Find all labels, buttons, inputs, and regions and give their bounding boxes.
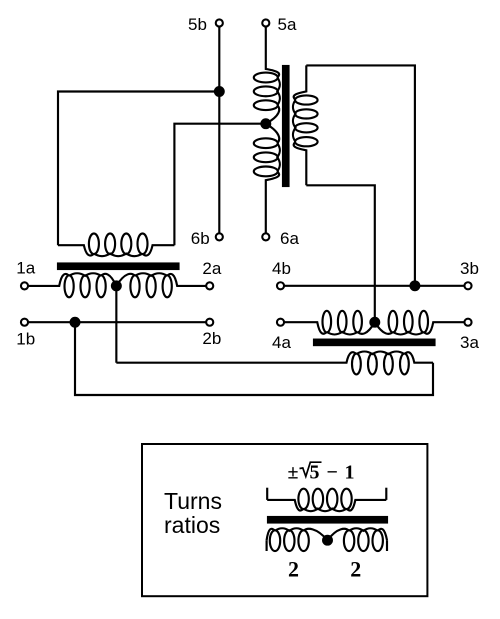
svg-text:3b: 3b: [460, 259, 479, 278]
svg-text:±: ±: [288, 461, 299, 483]
svg-text:5a: 5a: [278, 15, 297, 34]
svg-text:2b: 2b: [202, 329, 221, 348]
svg-text:5b: 5b: [188, 15, 207, 34]
svg-text:ratios: ratios: [164, 512, 220, 538]
svg-text:2a: 2a: [202, 259, 221, 278]
svg-text:6b: 6b: [191, 229, 210, 248]
svg-text:2: 2: [350, 557, 361, 582]
svg-text:4b: 4b: [272, 259, 291, 278]
svg-text:2: 2: [288, 557, 299, 582]
svg-text:−: −: [327, 461, 338, 483]
svg-text:1b: 1b: [16, 330, 35, 349]
svg-text:1a: 1a: [16, 259, 35, 278]
svg-text:6a: 6a: [280, 229, 299, 248]
svg-text:Turns: Turns: [164, 488, 222, 514]
svg-text:3a: 3a: [460, 333, 479, 352]
svg-text:1: 1: [345, 461, 355, 483]
svg-text:4a: 4a: [272, 333, 291, 352]
svg-text:5: 5: [310, 461, 320, 483]
